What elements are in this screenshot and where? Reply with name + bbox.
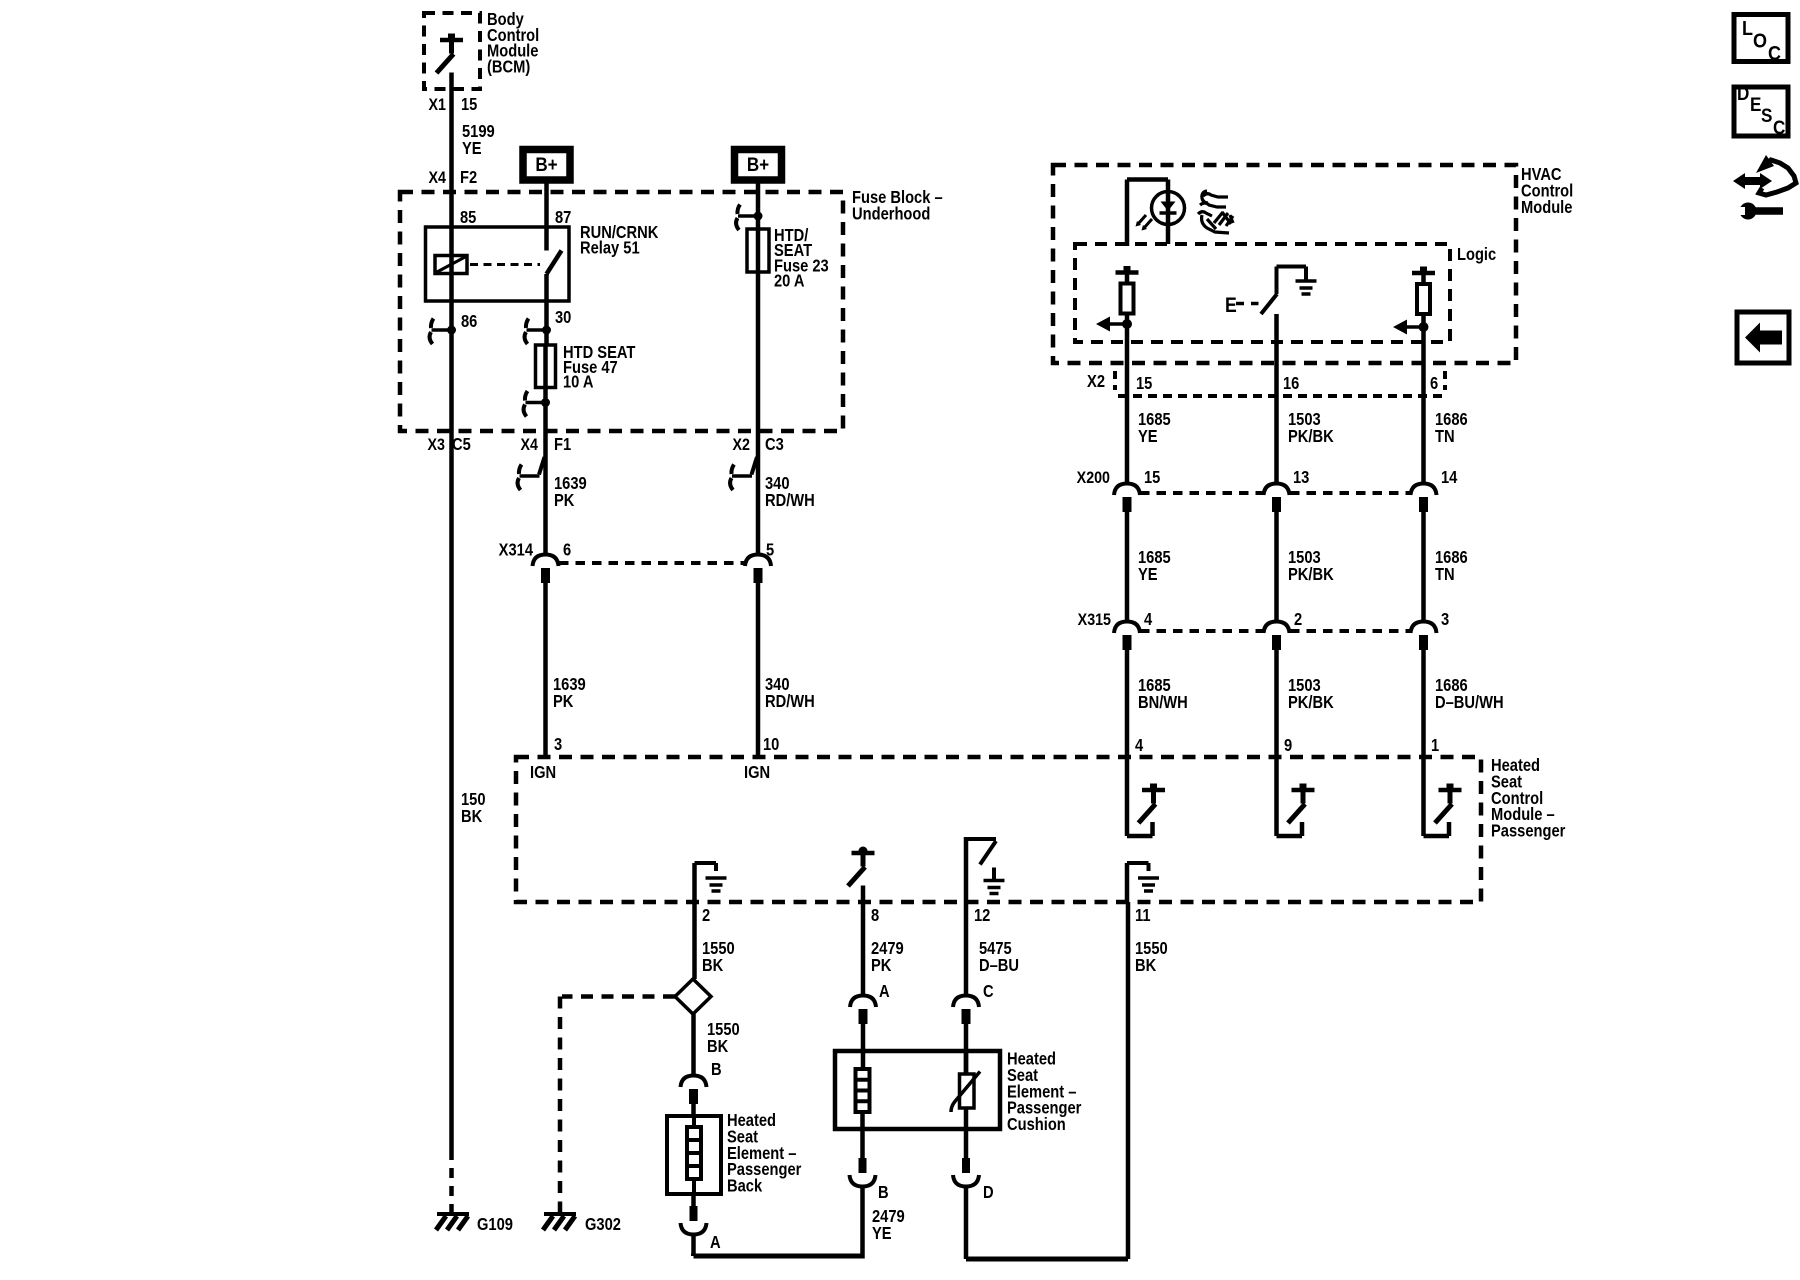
terminal clip at relay pin 30 — [525, 319, 551, 345]
Heated Seat Element - Passenger Cushion box — [835, 1051, 1000, 1129]
module internal ground at pin 11 — [1127, 863, 1159, 902]
HTD SEAT Fuse 47 label — [563, 343, 636, 392]
svg-text:15: 15 — [1136, 374, 1152, 393]
svg-text:X314: X314 — [499, 540, 533, 559]
wire splice to connector B — [691, 1014, 696, 1076]
svg-text:C: C — [1768, 43, 1781, 65]
svg-text:YE: YE — [1138, 565, 1158, 584]
module pin 4 label — [1135, 736, 1143, 755]
module internal switch at pin 4 — [1127, 757, 1165, 836]
svg-text:2: 2 — [1294, 610, 1302, 629]
HVAC Control Module label — [1521, 165, 1573, 217]
relay pin 85 label — [460, 208, 476, 227]
relay coil — [435, 256, 467, 274]
svg-text:B+: B+ — [747, 154, 769, 175]
svg-text:RD/WH: RD/WH — [765, 692, 815, 711]
module pin 8 label — [871, 906, 879, 925]
wire label 1685 BN/WH — [1138, 676, 1188, 712]
wire 1685 YE (X200-X315) — [1125, 512, 1130, 622]
wire 340 RD/WH lower segment to module pin 10 — [756, 583, 761, 757]
Body Control Module (BCM) dashed box — [424, 13, 480, 89]
wire 150 BK dashed tail to G109 — [449, 1150, 454, 1212]
wire label 1503 PK/BK (X200-X315) — [1288, 548, 1334, 584]
wire label 1686 TN (X2-X200) — [1435, 410, 1468, 446]
connector X200 label — [1077, 469, 1111, 487]
B+ power symbol (HTD/SEAT fuse feed) — [735, 150, 782, 181]
wire label 2479 PK — [871, 939, 904, 975]
relay pin 86 label — [461, 312, 477, 331]
connector X315 pin 2 — [1264, 610, 1303, 650]
svg-text:86: 86 — [461, 312, 477, 331]
svg-text:Logic: Logic — [1457, 245, 1496, 264]
wire 2479 PK from pin 8 to connector A — [861, 902, 866, 996]
svg-text:D: D — [1737, 83, 1749, 104]
wire connector B to element — [691, 1100, 696, 1116]
ground G109 — [436, 1214, 513, 1234]
svg-text:G109: G109 — [477, 1215, 513, 1234]
svg-text:BK: BK — [461, 807, 483, 826]
connector X315 label — [1078, 611, 1112, 629]
seat back heating element — [687, 1116, 701, 1194]
Fuse Block label — [852, 188, 943, 224]
wire B+ to relay pin 87 — [544, 180, 549, 227]
B+ power symbol (RUN/CRNK relay feed) — [523, 150, 570, 181]
svg-text:F2: F2 — [460, 168, 477, 187]
right output arrow — [1393, 320, 1424, 335]
Logic dashed box — [1075, 244, 1450, 342]
relay pin 30 label — [555, 308, 571, 327]
svg-text:G302: G302 — [585, 1215, 621, 1234]
svg-text:IGN: IGN — [530, 763, 556, 782]
logic right resistor — [1412, 267, 1435, 315]
svg-text:PK/BK: PK/BK — [1288, 565, 1334, 584]
bottom link wire A to B — [694, 1254, 864, 1257]
LED indicator loop wire — [1127, 180, 1168, 247]
connector label X2 | C3 — [733, 435, 784, 454]
svg-text:6: 6 — [1430, 374, 1438, 393]
wire below logic switch (1503 column) — [1274, 314, 1279, 484]
connector label X4 | F1 — [521, 435, 572, 454]
wire label 1639 PK (lower) — [553, 675, 586, 711]
logic driver switch to ground (E) — [1225, 267, 1317, 318]
svg-text:E: E — [1225, 294, 1237, 318]
wire label 2479 YE — [872, 1207, 905, 1243]
IGN label at pin 10 — [744, 763, 770, 782]
HTD SEAT Fuse 47 10A symbol — [536, 345, 556, 388]
wire from BCM pin 15 down to fuse block — [449, 73, 454, 228]
wire label 1550 BK (pin 11) — [1135, 939, 1168, 975]
svg-text:10: 10 — [763, 735, 779, 754]
wire element to connector A — [691, 1194, 696, 1207]
wire label 5199 YE — [462, 122, 495, 158]
svg-text:X4: X4 — [521, 436, 539, 454]
connector X200 pin 15 — [1114, 468, 1160, 512]
svg-text:12: 12 — [974, 906, 990, 925]
connector X200 pin 14 — [1411, 468, 1458, 512]
Heated Seat Control Module - Passenger dashed box — [516, 757, 1481, 902]
terminal clip at relay pin 86 — [430, 319, 456, 345]
svg-text:PK: PK — [871, 956, 892, 975]
connector X315 pin 3 — [1411, 610, 1450, 650]
wiring jump icon — [1733, 155, 1796, 220]
svg-text:BK: BK — [702, 956, 724, 975]
terminal clip at fuse 23 feed — [736, 205, 762, 231]
wire 1639 PK segment to X314 — [543, 431, 548, 555]
wire label 1685 YE (X200-X315) — [1138, 548, 1171, 584]
svg-text:Relay 51: Relay 51 — [580, 238, 640, 257]
svg-text:C5: C5 — [452, 435, 471, 454]
svg-text:PK: PK — [553, 692, 574, 711]
DESC icon box — [1734, 83, 1788, 138]
connector B (seat back element) — [681, 1060, 722, 1104]
connector A (cushion) — [850, 982, 890, 1024]
svg-text:B: B — [711, 1060, 722, 1079]
module internal ground at pin 2 — [695, 863, 727, 902]
splice diamond — [675, 979, 711, 1014]
connector label X1 | 15 — [429, 95, 478, 114]
wire relay pin 86 down (BCM column) — [449, 301, 454, 431]
HVAC Control Module dashed box — [1053, 165, 1516, 363]
svg-text:X3: X3 — [428, 436, 446, 454]
HTD/SEAT Fuse 23 label — [774, 226, 829, 291]
svg-text:IGN: IGN — [744, 763, 770, 782]
connector X314 dashed link — [559, 561, 745, 565]
svg-text:3: 3 — [1441, 610, 1449, 629]
svg-text:X200: X200 — [1077, 469, 1111, 487]
wire label 1685 YE (X2-X200) — [1138, 410, 1171, 446]
svg-text:BK: BK — [1135, 956, 1157, 975]
module internal switch at pin 8 — [848, 847, 875, 903]
connector pass-through jog at X2 C3 — [730, 457, 757, 490]
svg-text:O: O — [1753, 31, 1767, 53]
svg-text:C: C — [1773, 117, 1785, 138]
connector D (cushion) — [953, 1158, 994, 1202]
wire label 1503 PK/BK (X2-X200) — [1288, 410, 1334, 446]
wire 5475 D-BU from pin 12 to connector C — [964, 902, 969, 996]
back arrow icon box — [1737, 312, 1789, 363]
wire below left resistor — [1125, 314, 1130, 485]
wire label 1686 TN (X200-X315) — [1435, 548, 1468, 584]
Heated Seat Element - Passenger Back box — [667, 1116, 721, 1194]
svg-text:TN: TN — [1435, 427, 1455, 446]
svg-text:BK: BK — [707, 1037, 729, 1056]
bottom link wire D to pin 11 — [966, 902, 1128, 1259]
connector X200 dashed links — [1140, 491, 1410, 495]
RUN/CRNK Relay 51 box — [426, 227, 570, 301]
wire label 340 RD/WH (lower) — [765, 675, 815, 711]
connector X315 dashed links — [1140, 629, 1410, 633]
svg-text:TN: TN — [1435, 565, 1455, 584]
wire through fuse 23 down to fuse block edge — [756, 229, 761, 431]
svg-text:X4: X4 — [429, 169, 447, 187]
wire through relay coil — [449, 227, 454, 301]
svg-text:10 A: 10 A — [563, 372, 594, 391]
svg-text:B: B — [878, 1183, 889, 1202]
wire label 1550 BK (below splice) — [707, 1020, 740, 1056]
svg-text:8: 8 — [871, 906, 879, 925]
svg-text:15: 15 — [1144, 468, 1160, 487]
svg-text:Underhood: Underhood — [852, 204, 930, 223]
svg-text:15: 15 — [461, 95, 477, 114]
module internal switch to ground at pin 12 — [966, 837, 1005, 902]
Fuse Block - Underhood dashed box — [400, 192, 843, 431]
svg-text:6: 6 — [563, 540, 571, 559]
wire 1550 BK from pin 2 to splice — [692, 902, 697, 979]
HTD/SEAT Fuse 23 20A symbol — [747, 229, 769, 272]
module pin 2 label — [702, 906, 710, 925]
svg-text:Back: Back — [727, 1176, 762, 1195]
wire 1686 D-BU/WH (X315-module) — [1421, 650, 1426, 757]
wire connector A into cushion box — [861, 1024, 866, 1070]
svg-text:PK: PK — [554, 491, 575, 510]
svg-text:C: C — [983, 982, 994, 1001]
module internal switch at pin 9 — [1277, 757, 1315, 836]
wire label 150 BK — [461, 790, 486, 826]
junction dot right resistor output — [1419, 322, 1429, 332]
wire connector C into cushion box — [964, 1024, 969, 1074]
svg-text:2: 2 — [702, 906, 710, 925]
connector pass-through jog at X4 F1 — [518, 457, 545, 490]
relay pin 87 label — [555, 208, 571, 227]
svg-text:YE: YE — [872, 1224, 892, 1243]
wire 1685 BN/WH (X315-module) — [1125, 650, 1130, 757]
wire 1639 PK lower segment to module pin 3 — [543, 583, 548, 757]
left output arrow — [1096, 317, 1127, 332]
wire 1503 PK/BK (X315-module) — [1274, 650, 1279, 757]
wire B+ to HTD/SEAT fuse — [756, 180, 761, 229]
svg-text:PK/BK: PK/BK — [1288, 427, 1334, 446]
svg-text:D: D — [983, 1183, 994, 1202]
connector C (cushion) — [953, 982, 994, 1024]
wire connector B to bottom link — [860, 1186, 865, 1259]
svg-text:F1: F1 — [554, 435, 571, 454]
svg-text:5: 5 — [766, 540, 774, 559]
svg-text:4: 4 — [1144, 610, 1152, 629]
wire label 1503 PK/BK (lower) — [1288, 676, 1334, 712]
wire label 340 RD/WH (upper) — [765, 474, 815, 510]
LOC icon box — [1734, 15, 1788, 66]
svg-text:13: 13 — [1293, 468, 1309, 487]
wire label 1686 D-BU/WH — [1435, 676, 1504, 712]
svg-text:X315: X315 — [1078, 611, 1112, 629]
wire below right resistor — [1421, 314, 1426, 484]
X2 pin 15 label — [1136, 374, 1152, 393]
svg-text:X2: X2 — [1087, 372, 1105, 391]
module pin 9 label — [1284, 736, 1292, 755]
connector X2 dotted edge — [1115, 371, 1445, 396]
svg-text:RD/WH: RD/WH — [765, 491, 815, 510]
module pin 1 label — [1431, 736, 1439, 755]
svg-text:85: 85 — [460, 208, 476, 227]
svg-text:87: 87 — [555, 208, 571, 227]
relay switch arm — [547, 251, 562, 275]
Heated Seat Control Module label — [1491, 756, 1566, 841]
connector B (cushion) — [850, 1158, 889, 1202]
wire label 1639 PK (upper) — [554, 474, 587, 510]
svg-text:16: 16 — [1283, 374, 1299, 393]
wire connector A to bottom link — [691, 1234, 696, 1256]
RUN/CRNK Relay 51 label — [580, 223, 659, 258]
svg-text:A: A — [879, 982, 890, 1001]
wire 1686 TN (X200-X315) — [1421, 512, 1426, 622]
connector X314 pin 6 — [533, 540, 572, 583]
BCM internal driver switch — [437, 34, 464, 74]
module pin 11 label — [1135, 906, 1151, 925]
wire relay pin 30 to fuse 47 — [544, 274, 549, 345]
connector label X4 | F2 — [429, 168, 478, 187]
svg-text:20 A: 20 A — [774, 271, 805, 290]
Logic label — [1457, 245, 1496, 264]
svg-text:Passenger: Passenger — [1491, 821, 1566, 840]
module pin 3 label — [554, 735, 562, 754]
svg-text:D–BU: D–BU — [979, 956, 1019, 975]
connector X200 pin 13 — [1264, 468, 1310, 512]
svg-text:B+: B+ — [535, 154, 557, 175]
svg-text:3: 3 — [554, 735, 562, 754]
relay switch contact from pin 87 — [544, 227, 549, 251]
logic left resistor — [1116, 266, 1139, 314]
svg-text:BN/WH: BN/WH — [1138, 693, 1188, 712]
Heated Seat Element - Passenger Cushion label — [1007, 1049, 1082, 1134]
junction dot left resistor output — [1122, 319, 1132, 329]
svg-text:Module: Module — [1521, 198, 1572, 217]
connector X314 label — [499, 540, 533, 559]
wire 150 BK (BCM column) solid run — [449, 431, 454, 1150]
ground G302 — [543, 1214, 621, 1234]
X2 pin 6 label — [1430, 374, 1438, 393]
wire 340 RD/WH segment to X314 — [756, 431, 761, 555]
svg-text:L: L — [1742, 18, 1753, 40]
svg-text:14: 14 — [1441, 468, 1457, 487]
wire 1503 PK/BK (X200-X315) — [1274, 512, 1279, 622]
svg-text:X1: X1 — [429, 96, 447, 114]
cushion thermistor — [951, 1051, 980, 1158]
wire label 5475 D-BU — [979, 939, 1019, 975]
wire connector D to bottom link — [964, 1186, 969, 1259]
svg-text:A: A — [710, 1233, 721, 1252]
wire through fuse 47 down to fuse block edge — [543, 345, 548, 431]
heated seat icon — [1198, 191, 1233, 233]
LED indicator — [1136, 192, 1185, 231]
module pin 10 label — [763, 735, 779, 754]
svg-text:9: 9 — [1284, 736, 1292, 755]
svg-text:11: 11 — [1135, 906, 1151, 925]
BCM label — [487, 10, 539, 77]
svg-text:YE: YE — [1138, 427, 1158, 446]
svg-text:30: 30 — [555, 308, 571, 327]
connector X315 pin 4 — [1114, 610, 1152, 650]
connector A (seat back element) — [681, 1206, 721, 1252]
relay coil-switch dashed link — [470, 263, 540, 266]
svg-text:1: 1 — [1431, 736, 1439, 755]
connector X314 pin 5 — [745, 540, 774, 583]
svg-text:C3: C3 — [765, 435, 784, 454]
svg-text:(BCM): (BCM) — [487, 57, 530, 76]
svg-text:4: 4 — [1135, 736, 1143, 755]
svg-text:S: S — [1761, 105, 1772, 126]
svg-text:D–BU/WH: D–BU/WH — [1435, 693, 1504, 712]
X2 pin 16 label — [1283, 374, 1299, 393]
connector X2 label — [1087, 372, 1105, 391]
svg-text:Cushion: Cushion — [1007, 1115, 1066, 1134]
Heated Seat Element - Passenger Back label — [727, 1111, 802, 1196]
svg-text:YE: YE — [462, 139, 482, 158]
IGN label at pin 3 — [530, 763, 556, 782]
svg-text:E: E — [1750, 94, 1761, 115]
connector label X3 | C5 — [428, 435, 471, 454]
module internal switch at pin 1 — [1424, 757, 1462, 836]
svg-text:X2: X2 — [733, 436, 751, 454]
wire label 1550 BK (pin 2) — [702, 939, 735, 975]
module pin 12 label — [974, 906, 990, 925]
dashed branch from splice to G302 — [560, 997, 675, 1213]
svg-text:PK/BK: PK/BK — [1288, 693, 1334, 712]
terminal clip below fuse 47 — [524, 391, 550, 417]
cushion heating element — [856, 1069, 870, 1158]
